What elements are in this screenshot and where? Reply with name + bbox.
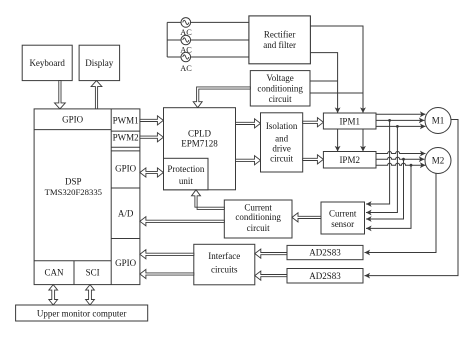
svg-text:CAN: CAN xyxy=(44,267,64,277)
block Voltage conditioning circuit xyxy=(250,71,310,106)
bus arrow AD2S83 upper to interface xyxy=(255,249,287,258)
wire current tap 4 from M2 phase 3 to current sensor xyxy=(366,165,411,228)
svg-text:Current: Current xyxy=(329,209,357,219)
wire current tap 3 from M2 phase 2 to current sensor xyxy=(366,159,404,219)
bus arrow CAN to upper monitor bidirectional xyxy=(49,285,58,305)
bus arrow current conditioning to protection unit xyxy=(192,190,225,210)
bus arrow voltage conditioning to CPLD xyxy=(193,87,250,108)
svg-text:M1: M1 xyxy=(432,116,445,126)
block Interface circuits xyxy=(194,244,255,284)
motor M2 xyxy=(425,148,451,174)
wire IPM1 to IPM2 DC link left xyxy=(337,129,339,152)
bus arrow isolation to IPM2 xyxy=(303,155,324,164)
junction dot tap2 xyxy=(396,125,399,128)
wire IPM2 to M2 phase 1 xyxy=(376,152,426,154)
wire rectifier output A to IPM1 xyxy=(310,26,363,113)
svg-text:Upper monitor computer: Upper monitor computer xyxy=(37,308,126,318)
bus arrow SCI to upper monitor bidirectional xyxy=(86,285,95,305)
wire AC1 to rectifier xyxy=(167,21,249,23)
svg-text:AD2S83: AD2S83 xyxy=(309,248,341,258)
wire IPM1 to M1 phase 2 xyxy=(376,119,425,121)
svg-text:Interface: Interface xyxy=(208,251,240,261)
svg-text:Display: Display xyxy=(85,58,113,68)
svg-text:circuits: circuits xyxy=(211,264,238,274)
block Current sensor xyxy=(321,202,365,234)
bus arrow CPLD to isolation lower xyxy=(236,156,261,165)
bus arrow interface to GPIO lower xyxy=(140,269,194,278)
svg-text:A/D: A/D xyxy=(118,209,134,219)
svg-text:DSP: DSP xyxy=(65,177,82,187)
bus arrow PWM1 to CPLD xyxy=(140,116,164,125)
DSP pin box A/D xyxy=(111,209,140,239)
svg-text:drive: drive xyxy=(272,143,291,153)
AC source 2 xyxy=(180,35,192,54)
DSP pin box PWM1 xyxy=(111,115,140,131)
wire IPM2 to M2 phase 3 xyxy=(376,163,426,165)
block IPM2 xyxy=(323,152,376,169)
svg-text:Keyboard: Keyboard xyxy=(29,58,65,68)
svg-text:conditioning: conditioning xyxy=(257,84,303,94)
wire IPM1 to IPM2 DC link right xyxy=(362,129,364,152)
svg-text:circuit: circuit xyxy=(269,94,292,104)
AC source bus vertical xyxy=(166,22,168,57)
wire IPM2 to M2 phase 2 xyxy=(376,157,425,159)
bus arrow current conditioning to A/D xyxy=(140,217,224,226)
svg-text:PWM1: PWM1 xyxy=(113,115,139,125)
svg-text:AC: AC xyxy=(180,64,192,73)
svg-text:GPIO: GPIO xyxy=(115,258,137,268)
block DSP TMS320F28335 outer xyxy=(34,109,140,285)
block AD2S83 lower xyxy=(287,269,363,284)
DSP CAN box xyxy=(34,261,111,285)
block Protection unit xyxy=(164,158,209,190)
AC source 3 xyxy=(180,52,192,73)
wire IPM1 to M1 phase 1 xyxy=(376,113,426,115)
svg-text:and: and xyxy=(275,133,288,143)
svg-text:Isolation: Isolation xyxy=(266,121,298,131)
wire current tap 2 from M1 phase 3 to current sensor xyxy=(366,126,397,212)
svg-text:CPLD: CPLD xyxy=(188,128,212,138)
svg-text:conditioning: conditioning xyxy=(235,212,281,222)
block CPLD EPM7128 xyxy=(164,108,236,190)
svg-text:Current: Current xyxy=(244,202,272,212)
DSP GPIO top strip xyxy=(34,115,111,130)
block Display xyxy=(79,45,120,80)
block Keyboard xyxy=(22,45,72,80)
bus arrow isolation to IPM1 xyxy=(303,118,324,127)
DSP internal divider vertical xyxy=(110,109,112,285)
block IPM1 xyxy=(323,113,376,129)
block Isolation and drive circuit xyxy=(261,113,303,172)
junction dot tap1 xyxy=(388,119,391,122)
junction dot tap4 xyxy=(410,164,413,167)
AC source 1 xyxy=(180,18,192,37)
wire rectifier output B to IPM1 xyxy=(310,53,337,113)
bus arrow PWM2 to CPLD xyxy=(140,133,164,142)
svg-text:IPM2: IPM2 xyxy=(339,155,360,165)
svg-text:unit: unit xyxy=(179,176,194,186)
svg-text:M2: M2 xyxy=(432,156,445,166)
svg-text:Protection: Protection xyxy=(167,164,204,174)
svg-text:GPIO: GPIO xyxy=(115,164,137,174)
block Current conditioning circuit xyxy=(224,200,292,238)
svg-text:PWM2: PWM2 xyxy=(113,133,139,143)
wire current tap 1 from M1 phase 2 to current sensor xyxy=(366,120,390,204)
block Upper monitor computer xyxy=(16,305,148,321)
bus arrow GPIO to Protection unit bidirectional xyxy=(140,168,164,177)
junction dot tap3 xyxy=(402,158,405,161)
svg-text:Rectifier: Rectifier xyxy=(264,30,295,40)
DSP pin box PWM2 xyxy=(111,133,140,148)
wire M1 resolver to AD2S83 lower xyxy=(365,120,459,276)
svg-text:GPIO: GPIO xyxy=(62,115,84,125)
svg-text:IPM1: IPM1 xyxy=(339,116,360,126)
svg-text:AD2S83: AD2S83 xyxy=(309,271,341,281)
svg-text:EPM7128: EPM7128 xyxy=(181,139,218,149)
bus arrow CPLD to isolation upper xyxy=(236,119,261,128)
block Rectifier and filter xyxy=(249,16,311,64)
bus arrow interface to GPIO upper xyxy=(140,250,194,259)
svg-text:SCI: SCI xyxy=(86,267,100,277)
wire AC3 to rectifier xyxy=(167,56,249,58)
bus arrow current sensor to current conditioning xyxy=(292,213,321,222)
wire AC2 to rectifier xyxy=(167,39,249,41)
bus arrow AD2S83 lower to interface xyxy=(255,271,287,280)
svg-text:and filter: and filter xyxy=(263,40,296,50)
wire voltage conditioning tap 1 xyxy=(310,80,338,82)
svg-text:sensor: sensor xyxy=(331,219,354,229)
block AD2S83 upper xyxy=(287,245,363,259)
svg-text:TMS320F28335: TMS320F28335 xyxy=(45,187,102,197)
wire IPM1 to M1 phase 3 xyxy=(376,125,426,127)
svg-text:Voltage: Voltage xyxy=(266,73,293,83)
svg-text:circuit: circuit xyxy=(247,223,270,233)
wire voltage conditioning tap 2 xyxy=(310,92,363,94)
svg-text:circuit: circuit xyxy=(270,153,293,163)
bus arrow GPIO to Display xyxy=(91,81,102,109)
DSP pin box GPIO mid xyxy=(111,151,140,188)
motor M1 xyxy=(425,108,451,134)
wire M2 resolver to AD2S83 upper xyxy=(365,174,437,253)
bus arrow Keyboard to GPIO xyxy=(55,81,66,109)
